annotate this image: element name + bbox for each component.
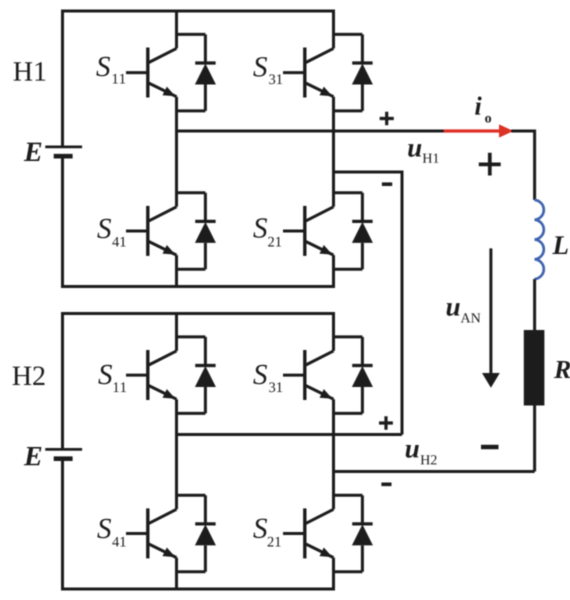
DC source E of H2: positive plate — [45, 448, 82, 451]
wire: resistor to bottom line — [533, 406, 536, 472]
label E (H1 source) — [24, 143, 42, 161]
wire: S31 (H1) emitter branch to diode — [334, 109, 363, 112]
label i_o (output current) — [475, 97, 481, 115]
transistor S21 (H1): emitter arrowhead — [320, 245, 333, 255]
transistor S21 (H1): collector lead — [305, 207, 334, 222]
label S21 of H1 — [253, 218, 267, 237]
inductor L coil (blue) — [535, 200, 544, 279]
antiparallel diode of S41 (H1): cathode bar — [195, 220, 215, 223]
wire: inductor to resistor — [533, 279, 536, 331]
voltage arrow u_AN: arrowhead — [482, 373, 500, 388]
transistor S21 (H2): collector bar — [303, 508, 306, 558]
transistor S41 (H2): collector lead — [148, 509, 177, 524]
polarity marker - (H1 output, node B) — [382, 182, 392, 186]
label S41 of H2 — [97, 519, 111, 538]
transistor S11 (H1): emitter arrowhead — [163, 87, 176, 97]
label R (resistor) — [554, 361, 570, 378]
wire: H2 left leg top segment — [175, 314, 178, 351]
transistor S11 (H1): emitter lead — [148, 83, 177, 97]
wire: S11 (H2) emitter branch to diode — [177, 412, 206, 415]
voltage arrow u_AN: shaft — [489, 248, 492, 374]
transistor S21 (H1): base lead — [283, 230, 305, 233]
label S11 of H1 — [96, 57, 110, 76]
wire: H2 DC bus top (left edge + top rail + right leg top) — [63, 314, 334, 450]
antiparallel diode of S11 (H1): anode triangle — [195, 64, 216, 85]
wire: S41 (H1) emitter branch to diode — [177, 268, 206, 271]
polarity marker - (H2 output) — [381, 482, 391, 486]
wire: H1 right leg middle segment — [332, 97, 335, 207]
transistor S31 (H2): emitter lead — [305, 385, 334, 399]
transistor S41 (H1): base lead — [126, 230, 148, 233]
transistor S41 (H2): collector bar — [146, 508, 149, 558]
wire: H1 output B link down to H2 (right-leg midpoint) — [334, 172, 403, 435]
transistor S11 (H2): collector lead — [148, 351, 177, 366]
antiparallel diode of S41 (H2): anode triangle — [195, 524, 216, 545]
transistor S21 (H2): emitter lead — [305, 544, 334, 558]
antiparallel diode of S21 (H1): anode wire — [361, 243, 364, 269]
wire: S11 (H1) collector branch to diode — [177, 33, 206, 36]
antiparallel diode of S41 (H1): cathode wire — [204, 193, 207, 222]
transistor S41 (H2): base lead — [126, 532, 148, 535]
wire: S11 (H2) collector branch to diode — [177, 335, 206, 338]
transistor S41 (H1): collector lead — [148, 207, 177, 222]
antiparallel diode of S21 (H2): cathode bar — [352, 522, 372, 525]
wire: H1 output A line (left-leg midpoint to load, node A) — [177, 130, 445, 133]
wire: S31 (H2) collector branch to diode — [334, 335, 363, 338]
transistor S41 (H1): emitter lead — [148, 241, 177, 255]
antiparallel diode of S21 (H2): cathode wire — [361, 495, 364, 524]
transistor S41 (H2): emitter lead — [148, 544, 177, 558]
antiparallel diode of S31 (H2): cathode wire — [361, 337, 364, 366]
wire: S31 (H2) emitter branch to diode — [334, 412, 363, 415]
label u_H1 (H1 output voltage) — [408, 144, 421, 157]
antiparallel diode of S21 (H1): cathode wire — [361, 193, 364, 222]
antiparallel diode of S41 (H1): anode triangle — [195, 222, 216, 243]
transistor S41 (H1): emitter arrowhead — [163, 245, 176, 255]
wire: S21 (H2) collector branch to diode — [334, 494, 363, 497]
antiparallel diode of S11 (H2): anode wire — [204, 387, 207, 413]
resistor R body — [524, 330, 545, 406]
wire: H1 left leg middle segment — [175, 97, 178, 207]
antiparallel diode of S21 (H2): anode wire — [361, 545, 364, 571]
wire: S11 (H1) emitter branch to diode — [177, 109, 206, 112]
label S41 of H1 — [97, 219, 111, 238]
transistor S31 (H1): emitter lead — [305, 83, 334, 97]
antiparallel diode of S21 (H2): anode triangle — [352, 524, 373, 545]
label u_H2 (H2 output voltage) — [406, 445, 419, 458]
polarity marker - (load u_AN bottom, bold) — [481, 445, 499, 449]
transistor S11 (H2): emitter lead — [148, 385, 177, 399]
antiparallel diode of S41 (H1): anode wire — [204, 243, 207, 269]
transistor S31 (H2): emitter arrowhead — [320, 389, 333, 399]
polarity marker + (H1 output, node A) — [380, 112, 394, 125]
wire: H2 left leg bottom segment — [175, 558, 178, 589]
transistor S41 (H2): emitter arrowhead — [163, 548, 176, 558]
antiparallel diode of S11 (H1): cathode wire — [204, 34, 207, 63]
wire: S41 (H1) collector branch to diode — [177, 191, 206, 194]
transistor S21 (H2): collector lead — [305, 509, 334, 524]
transistor S31 (H2): collector bar — [303, 350, 306, 400]
wire: S41 (H2) collector branch to diode — [177, 494, 206, 497]
label S11 of H2 — [98, 365, 112, 384]
antiparallel diode of S31 (H1): cathode bar — [352, 61, 372, 64]
label S31 of H2 — [253, 365, 267, 384]
antiparallel diode of S31 (H1): anode triangle — [352, 64, 373, 85]
wire: S31 (H1) collector branch to diode — [334, 33, 363, 36]
transistor S31 (H2): collector lead — [305, 351, 334, 366]
wire: S41 (H2) emitter branch to diode — [177, 570, 206, 573]
label E (H2 source) — [24, 447, 42, 465]
current arrow i_o: red arrowhead — [499, 124, 514, 137]
transistor S31 (H2): base lead — [283, 374, 305, 377]
transistor S31 (H1): emitter arrowhead — [320, 87, 333, 97]
antiparallel diode of S31 (H2): anode wire — [361, 387, 364, 413]
transistor S31 (H1): base lead — [283, 71, 305, 74]
wire: H1 DC bus bottom (left edge + bottom rail + right leg bottom) — [63, 156, 334, 286]
antiparallel diode of S11 (H2): anode triangle — [195, 366, 216, 387]
transistor S11 (H1): base lead — [126, 71, 148, 74]
wire: H2 output A line (left-leg midpoint joining H1 B link) — [177, 433, 403, 436]
label u_AN (load voltage) — [447, 303, 460, 316]
antiparallel diode of S41 (H2): cathode wire — [204, 495, 207, 524]
transistor S41 (H1): collector bar — [146, 206, 149, 256]
antiparallel diode of S11 (H1): cathode bar — [195, 61, 215, 64]
wire: H1 DC bus top (left edge + top rail + right leg top) — [63, 11, 334, 147]
DC source E of H2: negative plate — [54, 456, 73, 461]
antiparallel diode of S31 (H1): cathode wire — [361, 34, 364, 63]
transistor S21 (H1): collector bar — [303, 206, 306, 256]
antiparallel diode of S31 (H2): cathode bar — [352, 364, 372, 367]
transistor S31 (H1): collector bar — [303, 48, 306, 98]
polarity marker + (load u_AN top, bold) — [479, 153, 501, 176]
wire: S21 (H1) emitter branch to diode — [334, 268, 363, 271]
wire: H1 left leg top segment — [175, 11, 178, 48]
current arrow i_o: red shaft — [444, 129, 500, 132]
wire: H2 left leg middle segment — [175, 399, 178, 509]
transistor S21 (H1): emitter lead — [305, 241, 334, 255]
transistor S11 (H2): base lead — [126, 374, 148, 377]
antiparallel diode of S31 (H1): anode wire — [361, 85, 364, 111]
wire: H1 left leg bottom segment — [175, 255, 178, 286]
transistor S11 (H2): emitter arrowhead — [163, 389, 176, 399]
antiparallel diode of S11 (H2): cathode wire — [204, 337, 207, 366]
wire: S21 (H1) collector branch to diode — [334, 191, 363, 194]
wire: H2 right leg middle segment — [332, 399, 335, 509]
label S31 of H1 — [253, 57, 267, 76]
transistor S31 (H1): collector lead — [305, 48, 334, 63]
antiparallel diode of S11 (H1): anode wire — [204, 85, 207, 111]
transistor S11 (H1): collector bar — [146, 48, 149, 98]
DC source E of H1: negative plate — [54, 154, 73, 159]
wire: S21 (H2) emitter branch to diode — [334, 570, 363, 573]
wire: load top corner segment — [511, 131, 535, 200]
transistor S21 (H2): base lead — [283, 532, 305, 535]
label L (inductor) — [552, 236, 567, 254]
antiparallel diode of S11 (H2): cathode bar — [195, 364, 215, 367]
label H1 — [14, 62, 46, 80]
label S21 of H2 — [253, 519, 267, 538]
wire: H2 output B line to load bottom (node N) — [334, 470, 535, 473]
antiparallel diode of S41 (H2): cathode bar — [195, 522, 215, 525]
transistor S11 (H2): collector bar — [146, 350, 149, 400]
transistor S21 (H2): emitter arrowhead — [320, 548, 333, 558]
label H2 — [13, 366, 45, 385]
antiparallel diode of S31 (H2): anode triangle — [352, 366, 373, 387]
polarity marker + (H2 output) — [379, 416, 393, 430]
antiparallel diode of S41 (H2): anode wire — [204, 545, 207, 571]
wire: H2 DC bus bottom (left edge + bottom rail + right leg bottom) — [63, 459, 334, 589]
antiparallel diode of S21 (H1): cathode bar — [352, 220, 372, 223]
transistor S11 (H1): collector lead — [148, 48, 177, 63]
antiparallel diode of S21 (H1): anode triangle — [352, 222, 373, 243]
DC source E of H1: positive plate — [45, 145, 82, 148]
